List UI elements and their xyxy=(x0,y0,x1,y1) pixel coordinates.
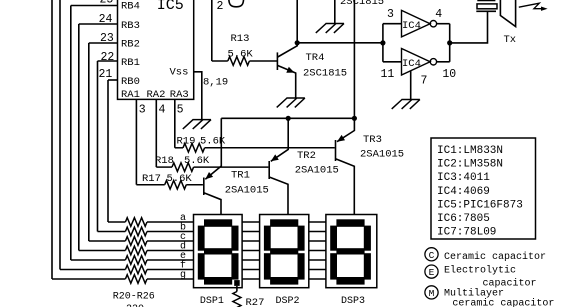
svg-text:Electrolytic: Electrolytic xyxy=(444,265,516,277)
wire Vss to ground xyxy=(194,72,202,120)
resistor R26 segment g row xyxy=(52,278,125,280)
node junction dot IC4 output xyxy=(447,40,452,45)
svg-text:21: 21 xyxy=(99,68,113,81)
ground (Vss) xyxy=(183,120,211,129)
wire RB3 pin stub xyxy=(79,23,118,25)
transistor TR1 2SA1015 xyxy=(203,178,205,196)
svg-text:RA2: RA2 xyxy=(147,89,166,101)
svg-text:RB2: RB2 xyxy=(121,39,140,51)
resistor R19 xyxy=(175,147,183,149)
svg-text:TR3: TR3 xyxy=(363,134,382,146)
svg-text:M: M xyxy=(429,288,435,299)
wire emitter supply bus xyxy=(221,117,354,119)
wire IC4 output top xyxy=(437,23,450,25)
IC3 gate outline (cut at top) xyxy=(229,0,244,7)
ground (IC4 pin 7) xyxy=(392,100,420,109)
legend symbol E electrolytic capacitor xyxy=(425,265,438,278)
svg-text:3: 3 xyxy=(387,8,394,21)
IC U5/IC5 PIC16F873 box (top cut off) xyxy=(118,0,194,99)
display DSP3 7-segment xyxy=(326,215,377,288)
resistor R21 segment b row xyxy=(98,231,126,233)
svg-text:2SC1815: 2SC1815 xyxy=(340,0,384,8)
svg-text:R19: R19 xyxy=(177,136,196,148)
wire RA1 pin 3 xyxy=(135,99,137,184)
wire TR4 collector to IC4 inputs xyxy=(297,42,383,44)
resistor R27 (cut at bottom) xyxy=(233,292,241,307)
svg-text:TR1: TR1 xyxy=(231,170,250,182)
svg-text:2SC1815: 2SC1815 xyxy=(303,67,347,79)
svg-text:R17: R17 xyxy=(142,173,161,185)
wire segment bus DSP2-DSP3 xyxy=(309,259,326,261)
svg-text:R18: R18 xyxy=(155,155,174,167)
svg-text:2SA1015: 2SA1015 xyxy=(225,185,269,197)
svg-text:IC5: IC5 xyxy=(157,0,184,14)
wire segment bus DSP1-DSP2 xyxy=(242,221,260,223)
svg-text:5.6K: 5.6K xyxy=(167,173,193,185)
transistor TR3 2SA1015 xyxy=(335,140,337,161)
svg-text:DSP2: DSP2 xyxy=(276,296,300,307)
svg-text:IC2:LM358N: IC2:LM358N xyxy=(437,159,503,171)
node junction dot IC4 input xyxy=(380,40,385,45)
wire RB2 pin stub xyxy=(89,42,118,44)
wire stub to ground (cut-off 2SC1815 above) xyxy=(334,0,336,24)
svg-text:IC4:4069: IC4:4069 xyxy=(437,186,490,198)
wire IC4 output vertical xyxy=(449,24,451,62)
resistor R13 xyxy=(212,60,228,62)
transistor TR4 2SC1815 xyxy=(276,52,278,70)
wire IC4 output bottom xyxy=(437,61,450,63)
wire IC4 input bottom xyxy=(383,61,402,63)
svg-text:4: 4 xyxy=(159,104,166,117)
resistor R23 segment d row xyxy=(79,250,126,252)
resistor R22 segment c row xyxy=(89,240,126,242)
svg-text:IC7:78L09: IC7:78L09 xyxy=(437,227,496,239)
svg-text:2SA1015: 2SA1015 xyxy=(295,165,339,177)
svg-text:Vss: Vss xyxy=(170,66,189,78)
resistor R18 xyxy=(156,166,172,168)
node junction dot TR3 emitter xyxy=(352,116,357,121)
wire segment bus DSP1-DSP2 xyxy=(242,269,260,271)
ground (top) xyxy=(316,24,344,33)
svg-text:R13: R13 xyxy=(231,33,250,45)
wire RA3 pin 5 xyxy=(174,99,176,147)
svg-text:C: C xyxy=(429,250,435,261)
svg-text:RB3: RB3 xyxy=(121,20,140,32)
wire segment-a vertical (RB0) xyxy=(107,80,109,222)
display DSP1 decimal point xyxy=(234,280,240,286)
svg-text:Ceramic capacitor: Ceramic capacitor xyxy=(444,251,546,263)
svg-text:RB0: RB0 xyxy=(121,76,140,88)
wire RB0 pin stub xyxy=(108,79,118,81)
svg-text:TR2: TR2 xyxy=(297,150,316,162)
wire segment bus DSP2-DSP3 xyxy=(309,240,326,242)
svg-text:g: g xyxy=(180,270,186,281)
wire RB4 pin stub xyxy=(71,5,118,7)
wire segment bus DSP2-DSP3 xyxy=(309,231,326,233)
wire segment bus DSP1-DSP2 xyxy=(242,259,260,261)
legend symbol C ceramic capacitor xyxy=(425,248,438,261)
svg-text:IC3:4011: IC3:4011 xyxy=(437,172,490,184)
wire segment-d vertical (RB3) xyxy=(78,24,80,251)
svg-text:2: 2 xyxy=(217,0,224,13)
svg-text:5: 5 xyxy=(177,104,184,117)
wire segment bus DSP2-DSP3 xyxy=(309,269,326,271)
IC legend box xyxy=(431,138,536,239)
svg-text:IC6:7805: IC6:7805 xyxy=(437,213,490,225)
resistor R25 segment f row xyxy=(60,269,125,271)
svg-text:2SA1015: 2SA1015 xyxy=(360,148,404,160)
svg-text:IC4: IC4 xyxy=(402,20,421,32)
inverter IC4 bottom (pins 11-10) xyxy=(402,49,431,76)
wire IC4 output to Tx xyxy=(450,11,488,43)
svg-text:8,19: 8,19 xyxy=(203,76,228,88)
wire IC4 pin 7 to ground xyxy=(410,71,412,100)
ultrasound emission arrow xyxy=(519,3,541,9)
svg-text:ceramic capacitor: ceramic capacitor xyxy=(452,297,554,307)
svg-text:DSP1: DSP1 xyxy=(200,296,224,307)
svg-text:10: 10 xyxy=(442,68,456,81)
svg-text:DSP3: DSP3 xyxy=(341,296,365,307)
resistor R17 xyxy=(136,184,164,186)
svg-text:IC5:PIC16F873: IC5:PIC16F873 xyxy=(437,199,523,211)
ground (TR4 emitter) xyxy=(277,98,305,107)
svg-text:5.6K: 5.6K xyxy=(184,155,210,167)
wire segment-c vertical (RB2) xyxy=(88,43,90,241)
svg-text:RB4: RB4 xyxy=(121,1,140,13)
svg-text:IC1:LM833N: IC1:LM833N xyxy=(437,145,503,157)
wire segment bus DSP1-DSP2 xyxy=(242,250,260,252)
svg-text:IC4: IC4 xyxy=(402,58,421,70)
svg-text:4: 4 xyxy=(435,8,442,21)
wire segment-g vertical (from top) xyxy=(51,0,53,279)
svg-text:RA3: RA3 xyxy=(170,89,189,101)
transducer Tx horn xyxy=(500,0,515,27)
resistor R20 segment a row xyxy=(108,221,125,223)
svg-text:Tx: Tx xyxy=(504,34,517,46)
legend symbol M multilayer ceramic capacitor xyxy=(425,286,438,299)
display DSP2 7-segment xyxy=(260,215,309,288)
resistor R24 segment e row xyxy=(71,259,126,261)
wire segment bus DSP2-DSP3 xyxy=(309,278,326,280)
inverter IC4 top (pins 3-4) xyxy=(402,10,431,37)
node junction dot TR4 collector xyxy=(295,40,300,45)
wire segment bus DSP1-DSP2 xyxy=(242,240,260,242)
wire supply vertical to bus xyxy=(353,0,355,118)
wire segment bus DSP2-DSP3 xyxy=(309,250,326,252)
svg-text:5.6K: 5.6K xyxy=(228,49,254,61)
wire segment-f vertical (from top) xyxy=(59,0,61,270)
wire DSP1 DP to R27 xyxy=(236,286,238,292)
svg-text:22: 22 xyxy=(101,51,115,64)
wire IC4 input top xyxy=(383,23,402,25)
wire segment bus DSP1-DSP2 xyxy=(242,231,260,233)
node junction dot TR2 emitter xyxy=(286,116,291,121)
transducer Tx piezo element xyxy=(477,0,495,2)
svg-text:R20-R26: R20-R26 xyxy=(113,292,155,303)
wire segment-e vertical (RB4) xyxy=(70,6,72,261)
svg-text:R27: R27 xyxy=(246,297,265,307)
wire segment-b vertical (RB1) xyxy=(97,61,99,232)
display DSP1 7-segment xyxy=(194,215,243,288)
transistor TR2 2SA1015 xyxy=(268,161,270,179)
wire segment bus DSP1-DSP2 xyxy=(242,278,260,280)
svg-text:3: 3 xyxy=(139,104,146,117)
wire IC4 input vertical xyxy=(382,24,384,62)
wire RB1 pin stub xyxy=(98,60,118,62)
svg-text:TR4: TR4 xyxy=(306,52,325,64)
wire RA2 pin 4 xyxy=(155,99,157,167)
svg-text:11: 11 xyxy=(381,68,395,81)
wire collector supply vertical xyxy=(296,0,298,43)
svg-text:E: E xyxy=(429,267,435,278)
wire from IC3 pin 2 xyxy=(211,0,213,61)
svg-text:RB1: RB1 xyxy=(121,57,140,69)
svg-text:7: 7 xyxy=(421,74,428,87)
svg-text:RA1: RA1 xyxy=(121,89,140,101)
wire segment bus DSP2-DSP3 xyxy=(309,221,326,223)
